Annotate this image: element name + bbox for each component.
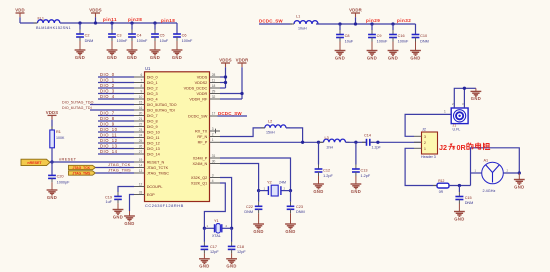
- junction C3: [110, 21, 113, 24]
- resistor R1: [50, 127, 65, 152]
- note J2 0R (chinese): J2为0R的电阻: [439, 143, 490, 152]
- svg-text:RF_N: RF_N: [197, 135, 207, 139]
- capacitor C12: [315, 142, 334, 184]
- wire/net label DIO_0: [98, 72, 134, 77]
- svg-text:nRESET: nRESET: [27, 161, 42, 165]
- svg-text:VDDS2: VDDS2: [195, 81, 208, 85]
- svg-text:Y1: Y1: [214, 219, 219, 223]
- svg-text:pin29: pin29: [366, 18, 380, 23]
- svg-text:DIO_14: DIO_14: [100, 149, 118, 154]
- svg-text:DIO_7: DIO_7: [100, 110, 115, 115]
- svg-text:26: 26: [139, 144, 143, 148]
- svg-text:30: 30: [212, 159, 216, 163]
- svg-text:XTAL: XTAL: [212, 234, 221, 238]
- wire J2 pin3 to J1: [405, 114, 451, 136]
- junction RF_P/L2: [301, 141, 304, 144]
- junction C2: [78, 21, 81, 24]
- junction C5: [153, 21, 156, 24]
- svg-text:GND: GND: [107, 55, 117, 60]
- svg-text:DIO_0: DIO_0: [147, 75, 158, 79]
- svg-text:2: 2: [212, 132, 214, 136]
- wire X32K_Q2 to Y1: [220, 178, 232, 229]
- pin 20 DIO_7: [134, 111, 158, 118]
- svg-text:X32K_Q1: X32K_Q1: [191, 181, 207, 185]
- svg-text:Header 3: Header 3: [421, 155, 436, 159]
- svg-text:VDDR: VDDR: [236, 57, 250, 62]
- svg-text:18: 18: [212, 84, 216, 88]
- svg-text:C8: C8: [345, 34, 350, 38]
- wire DCDC_SW to L1: [259, 23, 292, 25]
- svg-text:GND: GND: [454, 216, 464, 221]
- ground under C5: [150, 50, 161, 60]
- svg-text:DNM: DNM: [244, 210, 253, 214]
- svg-text:1: 1: [424, 147, 426, 151]
- svg-text:DNM: DNM: [296, 210, 305, 214]
- svg-text:3: 3: [212, 127, 214, 131]
- junction Y2 right: [289, 189, 292, 192]
- svg-text:6: 6: [141, 73, 143, 77]
- svg-text:RX_TX: RX_TX: [195, 129, 208, 133]
- svg-text:VDDR_RF: VDDR_RF: [189, 97, 208, 101]
- svg-text:DIO_14: DIO_14: [147, 152, 160, 156]
- pin 21 DIO_8: [134, 117, 158, 124]
- svg-text:GND: GND: [199, 264, 209, 269]
- svg-text:DIO_1: DIO_1: [147, 81, 158, 85]
- svg-text:VDDS: VDDS: [46, 110, 59, 115]
- svg-text:RESET_N: RESET_N: [147, 160, 165, 164]
- svg-text:BLM18HK152SN1: BLM18HK152SN1: [36, 26, 71, 30]
- svg-text:100nF: 100nF: [117, 39, 128, 43]
- pin stub J2 pin2: [414, 141, 422, 143]
- wire/net label DIO_3: [98, 88, 134, 93]
- svg-text:C3: C3: [117, 33, 122, 37]
- wire antenna loop left: [471, 148, 520, 186]
- svg-text:C2: C2: [85, 33, 90, 37]
- svg-text:C16: C16: [398, 34, 405, 38]
- svg-text:R12: R12: [438, 179, 444, 183]
- pin 32 VDDR_RF: [189, 95, 220, 102]
- svg-text:JTAG_TMS: JTAG_TMS: [108, 168, 131, 173]
- capacitor C4: [128, 23, 148, 50]
- svg-text:pin11: pin11: [103, 17, 117, 22]
- pin 19 RESET_N: [134, 158, 164, 165]
- ground under C10: [410, 51, 421, 61]
- wire L2 to RF_P line: [286, 128, 303, 142]
- svg-text:24M: 24M: [279, 180, 286, 184]
- wire/net label DIO_2: [98, 83, 134, 88]
- junction VDDS pin28: [224, 75, 227, 78]
- svg-text:GND: GND: [351, 189, 361, 194]
- capacitor C17: [201, 228, 220, 258]
- svg-text:1: 1: [444, 110, 446, 114]
- pin 22 DIO_9: [134, 122, 158, 129]
- svg-text:31: 31: [212, 154, 216, 158]
- pin 30 X24M_N: [193, 159, 220, 166]
- pin 3 X32K_Q2: [191, 173, 220, 180]
- ground under C8: [335, 51, 346, 61]
- wire/net label DIO_7: [98, 110, 134, 115]
- net label pin28: [128, 17, 142, 22]
- junction J1 ground: [463, 87, 466, 90]
- ground under C2: [75, 50, 86, 60]
- pin 7 DIO_1: [134, 78, 158, 85]
- svg-text:DIO_8: DIO_8: [147, 119, 158, 123]
- pin 14 JTAG_TCTK: [134, 163, 169, 170]
- wire/net label DIO_13: [98, 143, 134, 148]
- svg-text:DIO_0: DIO_0: [100, 72, 115, 77]
- port JTAG_TMS: [69, 171, 96, 176]
- ground antenna: [514, 173, 525, 189]
- svg-text:GND: GND: [150, 55, 160, 60]
- pin 6 DIO_0: [134, 73, 158, 80]
- wire/net label JTAG_TCK: [95, 162, 134, 168]
- pin 17 DCDC_SW: [188, 112, 217, 119]
- power symbol VDDR (above chip): [236, 57, 250, 99]
- svg-text:3: 3: [212, 173, 214, 177]
- junction VDDS rail: [94, 21, 97, 24]
- junction C4: [130, 21, 133, 24]
- svg-text:DIO_3: DIO_3: [147, 92, 158, 96]
- svg-text:pin18: pin18: [161, 18, 175, 23]
- svg-text:C20: C20: [57, 175, 64, 179]
- svg-text:VDD: VDD: [15, 7, 25, 12]
- capacitor C10: [412, 24, 429, 51]
- ferrite bead FL1: [34, 16, 71, 30]
- svg-text:DIO_4: DIO_4: [100, 94, 115, 99]
- svg-text:L1: L1: [296, 15, 300, 19]
- svg-text:C5: C5: [160, 33, 165, 37]
- svg-text:pin28: pin28: [128, 17, 142, 22]
- wire/net label JTAG_TMS: [95, 168, 134, 174]
- wire antenna pin1: [471, 169, 482, 173]
- svg-text:DIO_10: DIO_10: [147, 130, 160, 134]
- svg-text:DIO_2: DIO_2: [147, 86, 158, 90]
- svg-text:C14: C14: [364, 134, 371, 138]
- svg-text:0R: 0R: [457, 143, 467, 152]
- svg-text:28: 28: [212, 73, 216, 77]
- wire/net label DIO_1: [98, 77, 134, 82]
- pin 16 DIO_6/JTAG_TDI: [134, 106, 175, 113]
- capacitor C14 (series): [362, 134, 381, 150]
- svg-text:GND: GND: [285, 229, 295, 234]
- power symbol VDD: [15, 7, 25, 23]
- svg-text:GND: GND: [388, 55, 398, 60]
- ground under C22: [253, 224, 264, 234]
- pin 27 DIO_14: [134, 150, 160, 157]
- ground under C15: [454, 212, 465, 222]
- svg-text:C12: C12: [323, 168, 330, 172]
- svg-text:C22: C22: [246, 205, 253, 209]
- capacitor C2: [76, 23, 93, 50]
- wire antenna pin2: [503, 169, 519, 173]
- svg-text:29: 29: [212, 89, 216, 93]
- svg-text:100K: 100K: [56, 136, 65, 140]
- svg-text:19: 19: [139, 158, 143, 162]
- wire/net label DCDC_SW (pin17): [218, 111, 248, 116]
- ground under C4: [127, 50, 138, 60]
- wire VDDR to power rail: [220, 93, 242, 95]
- svg-text:23: 23: [139, 128, 143, 132]
- pin number J1 pin1: [444, 110, 446, 114]
- svg-text:10uF: 10uF: [345, 40, 354, 44]
- wire/net label DIO_4: [98, 94, 134, 99]
- pin 8 DIO_2: [134, 84, 158, 91]
- svg-text:GND: GND: [47, 195, 57, 200]
- pin 3 RX_TX: [195, 127, 220, 134]
- wire EGP to ground: [130, 195, 135, 217]
- net label pin32: [397, 18, 411, 23]
- svg-text:10uF: 10uF: [160, 39, 169, 43]
- port JTAG_TCK: [69, 165, 96, 170]
- svg-text:12pF: 12pF: [237, 250, 246, 254]
- svg-text:21: 21: [139, 117, 143, 121]
- wire/net label DIO_5/JTAG_TDO: [62, 100, 134, 104]
- svg-text:JTAG_TCK: JTAG_TCK: [72, 166, 90, 170]
- wire J2 pin1 to antenna rail: [405, 148, 437, 185]
- svg-text:EGP: EGP: [147, 193, 155, 197]
- capacitor C20: [48, 175, 70, 190]
- ground under EGP: [124, 216, 135, 226]
- svg-text:C10: C10: [420, 34, 427, 38]
- svg-text:GND: GND: [75, 55, 85, 60]
- svg-text:DIO_5/JTAG_TDO: DIO_5/JTAG_TDO: [62, 100, 94, 104]
- svg-text:2: 2: [424, 141, 426, 145]
- pin 28 VDDS: [197, 73, 220, 80]
- pin 23 DIO_10: [134, 128, 160, 135]
- crystal Y1 (XTAL): [204, 219, 231, 238]
- svg-text:GND: GND: [124, 221, 134, 226]
- junction C13: [354, 141, 357, 144]
- svg-text:DNM: DNM: [85, 39, 94, 43]
- svg-text:12pF: 12pF: [210, 250, 219, 254]
- svg-text:7: 7: [141, 78, 143, 82]
- svg-text:100nF: 100nF: [377, 40, 388, 44]
- capacitor C5: [151, 23, 169, 50]
- wire RF_N to L2: [220, 128, 265, 137]
- ground under C16: [388, 51, 399, 61]
- svg-text:0R: 0R: [439, 190, 444, 194]
- junction C12: [317, 141, 320, 144]
- svg-text:DIO_5/JTAG_TDO: DIO_5/JTAG_TDO: [147, 103, 177, 107]
- svg-text:J2: J2: [422, 128, 426, 132]
- svg-text:33: 33: [139, 190, 143, 194]
- pin 13 JTAG_TMSC: [134, 169, 169, 176]
- ground under C9: [367, 51, 378, 61]
- wire L3 to C14: [346, 141, 367, 143]
- capacitor C3: [108, 23, 128, 50]
- svg-text:DIO_6/JTAG_TDI: DIO_6/JTAG_TDI: [62, 106, 92, 110]
- pin 9 DIO_3: [134, 89, 158, 96]
- wire X24M_P to Y2: [220, 158, 291, 191]
- wire VDDS_DCDC to power rail: [220, 87, 226, 89]
- port RESET: [21, 159, 50, 165]
- wire/net label DIO_11: [98, 132, 134, 137]
- svg-text:DIO_11: DIO_11: [100, 132, 117, 137]
- capacitor C9: [368, 24, 388, 51]
- svg-text:VDDR: VDDR: [197, 92, 208, 96]
- svg-text:GND: GND: [253, 229, 263, 234]
- svg-text:VDDR: VDDR: [349, 7, 363, 12]
- wire X24M_N to Y2: [220, 164, 259, 191]
- svg-text:DIO_9: DIO_9: [100, 121, 115, 126]
- junction antenna ground: [518, 171, 521, 174]
- wire/net label DIO_12: [98, 138, 134, 143]
- svg-text:1000pF: 1000pF: [57, 181, 71, 185]
- junction RESET: [50, 160, 53, 163]
- pin 31 X24M_P: [193, 154, 220, 161]
- wire L1 to C10 (VDDR rail): [316, 23, 416, 25]
- svg-text:DIO_3: DIO_3: [100, 88, 115, 93]
- ground J1: [471, 88, 482, 101]
- power symbol VDDS: [89, 7, 102, 23]
- capacitor C18: [228, 228, 247, 258]
- wire/net label DIO_6/JTAG_TDI: [62, 106, 134, 110]
- connector J2 (Header 3): [421, 128, 438, 159]
- inductor L3: [320, 136, 350, 149]
- svg-text:DIO_1: DIO_1: [100, 77, 115, 82]
- svg-text:4: 4: [212, 179, 214, 183]
- capacitor C8: [336, 24, 354, 51]
- svg-text:22: 22: [139, 122, 143, 126]
- svg-text:DIO_13: DIO_13: [147, 147, 160, 151]
- pin stub J2 pin1: [414, 147, 422, 149]
- junction VDDS pin11: [224, 81, 227, 84]
- resistor R12 (0R): [433, 179, 453, 194]
- svg-text:DIO_4: DIO_4: [147, 97, 158, 101]
- power symbol VDDS (above chip): [219, 57, 232, 88]
- svg-text:L2: L2: [268, 120, 272, 124]
- svg-text:JTAG_TMSC: JTAG_TMSC: [147, 171, 170, 175]
- svg-text:16: 16: [139, 106, 143, 110]
- wire/net label DIO_14: [98, 149, 134, 154]
- svg-text:GND: GND: [172, 55, 182, 60]
- svg-text:RF_P: RF_P: [198, 141, 208, 145]
- svg-text:J2: J2: [439, 143, 447, 152]
- junction C8: [338, 22, 341, 25]
- ground under C19: [113, 210, 124, 220]
- wire C14 to J2 pin2: [370, 141, 422, 143]
- wire/net label DIO_9: [98, 121, 134, 126]
- junction C9: [370, 22, 373, 25]
- wire VDDS2 to power rail: [220, 82, 226, 84]
- svg-text:nRESET: nRESET: [59, 156, 77, 161]
- svg-text:L3: L3: [325, 136, 329, 140]
- svg-text:9: 9: [141, 89, 143, 93]
- svg-text:1.2pF: 1.2pF: [323, 174, 333, 178]
- wire VDDS to power rail: [220, 76, 226, 78]
- svg-text:1.2pF: 1.2pF: [372, 146, 382, 150]
- wire FL1 to C6 (VDDS rail): [60, 22, 177, 24]
- svg-text:VDDS: VDDS: [219, 57, 232, 62]
- svg-text:12: 12: [139, 182, 143, 186]
- svg-text:3: 3: [424, 135, 426, 139]
- antenna A1: [482, 159, 504, 193]
- junction Y1 left: [203, 227, 206, 230]
- svg-text:C4: C4: [137, 33, 142, 37]
- capacitor C19: [105, 192, 122, 210]
- svg-text:C18: C18: [237, 245, 244, 249]
- svg-text:FL1: FL1: [38, 16, 45, 20]
- wire RESET port to chip: [50, 156, 134, 162]
- pin 24 DIO_11: [134, 133, 160, 140]
- svg-text:10uH: 10uH: [298, 27, 307, 31]
- junction antenna/C15: [458, 184, 461, 187]
- capacitor C15: [455, 186, 473, 212]
- svg-text:DIO_9: DIO_9: [147, 125, 158, 129]
- svg-text:1.2pF: 1.2pF: [361, 174, 371, 178]
- inductor L2: [261, 120, 290, 135]
- pin 10 DIO_4: [134, 95, 158, 102]
- svg-text:20: 20: [139, 111, 143, 115]
- svg-text:15: 15: [139, 100, 143, 104]
- svg-text:GND: GND: [471, 96, 481, 101]
- svg-text:GND: GND: [514, 184, 524, 189]
- svg-text:JTAG_TCTK: JTAG_TCTK: [147, 166, 169, 170]
- svg-text:GND: GND: [226, 264, 236, 269]
- ground under C3: [107, 50, 118, 60]
- svg-text:DIO_2: DIO_2: [100, 83, 115, 88]
- pin 15 DIO_5/JTAG_TDO: [134, 100, 177, 107]
- svg-text:DIO_8: DIO_8: [100, 116, 115, 121]
- svg-text:VDDS: VDDS: [89, 7, 102, 12]
- svg-text:R1: R1: [56, 130, 61, 134]
- svg-text:C23: C23: [296, 205, 303, 209]
- ground under C17: [199, 259, 210, 269]
- wire DCOUPL to C19: [118, 187, 134, 193]
- svg-text:GND: GND: [410, 55, 420, 60]
- pin 25 DIO_12: [134, 139, 160, 146]
- pin 29 VDDR: [197, 89, 220, 96]
- junction VDDR pin29: [240, 92, 243, 95]
- capacitor C6: [173, 23, 193, 50]
- pin 18 VDDS_DCDC: [184, 84, 220, 91]
- svg-text:DCDC_SW: DCDC_SW: [188, 114, 208, 118]
- ground under C12: [313, 184, 324, 194]
- pin 26 DIO_13: [134, 144, 160, 151]
- pin 33 EGP: [134, 190, 155, 197]
- wire RESET to C20: [51, 162, 53, 175]
- value CC2630F128RHB: [145, 203, 184, 208]
- svg-text:DIO_11: DIO_11: [147, 136, 160, 140]
- svg-text:10: 10: [139, 95, 143, 99]
- pin 4 X32K_Q1: [191, 179, 220, 186]
- svg-text:25: 25: [139, 139, 143, 143]
- op-amp U1 body (CC2630 IC): [145, 72, 210, 202]
- svg-text:C6: C6: [182, 33, 187, 37]
- designator U1: [145, 66, 151, 71]
- wire X32K_Q1 to Y1: [204, 183, 225, 228]
- svg-text:100nF: 100nF: [182, 39, 193, 43]
- wire/net label DIO_8: [98, 116, 134, 121]
- svg-text:JTAG_TMS: JTAG_TMS: [72, 171, 91, 175]
- power symbol VDDS (reset pullup): [46, 110, 59, 130]
- svg-text:DIO_6/JTAG_TDI: DIO_6/JTAG_TDI: [147, 108, 175, 112]
- svg-text:C15: C15: [465, 196, 472, 200]
- svg-text:17: 17: [212, 112, 216, 116]
- svg-text:X24M_P: X24M_P: [193, 156, 208, 160]
- wire R1 to RESET junction: [51, 148, 53, 162]
- connector J1 (U.FL): [451, 108, 468, 132]
- svg-text:24: 24: [139, 133, 143, 137]
- svg-text:DNM: DNM: [420, 40, 429, 44]
- svg-text:DIO_12: DIO_12: [100, 138, 118, 143]
- svg-text:GND: GND: [127, 55, 137, 60]
- junction Y2 left: [257, 189, 260, 192]
- svg-text:DCDC_SW: DCDC_SW: [218, 111, 242, 116]
- pin 1 RF_P: [198, 138, 220, 145]
- svg-text:GND: GND: [313, 189, 323, 194]
- svg-text:C9: C9: [377, 34, 382, 38]
